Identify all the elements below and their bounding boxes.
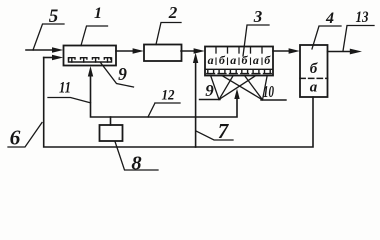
svg-text:4: 4 [325, 10, 334, 27]
svg-text:а: а [253, 53, 259, 67]
svg-text:б: б [310, 61, 318, 77]
svg-text:а: а [230, 53, 236, 67]
svg-text:7: 7 [218, 119, 230, 143]
svg-text:б: б [264, 53, 271, 67]
svg-text:9: 9 [205, 81, 214, 100]
svg-text:а: а [208, 53, 214, 67]
svg-text:б: б [242, 53, 249, 67]
svg-text:12: 12 [162, 88, 175, 104]
svg-text:6: 6 [10, 126, 21, 150]
svg-text:5: 5 [49, 6, 59, 27]
svg-text:11: 11 [59, 80, 71, 97]
svg-text:10: 10 [263, 82, 274, 101]
svg-text:8: 8 [131, 153, 141, 175]
svg-text:1: 1 [94, 5, 102, 22]
svg-text:13: 13 [356, 9, 369, 26]
svg-text:3: 3 [253, 7, 263, 26]
svg-text:9: 9 [118, 64, 127, 84]
svg-text:б: б [219, 53, 226, 67]
svg-text:а: а [310, 80, 318, 96]
svg-text:2: 2 [168, 3, 178, 22]
